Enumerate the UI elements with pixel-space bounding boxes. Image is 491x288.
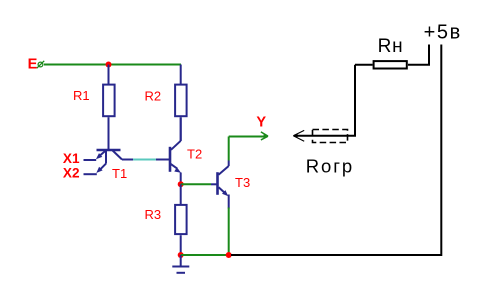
transistor T3: [218, 161, 229, 209]
wire R1 top lead: [108, 65, 110, 85]
resistor R3: [175, 205, 187, 234]
svg-text:Y: Y: [256, 114, 266, 130]
ground: [172, 255, 189, 273]
wire T3 collector up (green): [228, 137, 230, 161]
svg-text:T3: T3: [235, 175, 250, 190]
node junction dot T3 emitter bottom: [226, 252, 232, 258]
wire Y output with arrow (green): [229, 136, 266, 138]
resistor Rn: [374, 61, 407, 68]
wire down from Rn: [354, 65, 356, 136]
wire bottom rail right (black): [231, 254, 441, 256]
wire T3 base lead (navy): [211, 183, 217, 185]
wire R2 top lead: [180, 65, 182, 85]
resistor Rogr dashed box: [313, 130, 348, 143]
wire arrow shaft to output: [294, 135, 356, 137]
wire T2 emitter to T3 base (green): [181, 183, 211, 185]
svg-text:X2: X2: [63, 166, 80, 181]
wire bottom rail (green): [181, 254, 229, 256]
arrowhead open (black): [293, 130, 304, 141]
svg-text:R1: R1: [73, 88, 90, 103]
wire +5v vertical (black): [440, 45, 442, 257]
svg-text:R2: R2: [145, 89, 162, 104]
node junction dot at R1 top: [106, 62, 112, 68]
wire X2 input: [84, 173, 97, 175]
wire R3 top lead: [180, 184, 182, 204]
wire R3 bottom lead: [180, 235, 182, 255]
node junction dot ground left: [178, 252, 184, 258]
svg-text:+5в: +5в: [424, 22, 462, 44]
transistor T2: [170, 118, 181, 185]
svg-text:E: E: [28, 57, 38, 73]
wire selected segment (teal): [133, 159, 156, 161]
wire R2 bottom lead to T2 collector: [180, 117, 182, 141]
resistor R1: [103, 85, 115, 117]
wire Rn right lead: [408, 64, 430, 66]
svg-text:T1: T1: [112, 166, 127, 181]
wire X1 input: [84, 159, 97, 161]
resistor R2: [175, 85, 187, 117]
wire T1 collector to T2 base (navy): [122, 159, 133, 161]
node junction dot T2 emitter: [178, 181, 184, 187]
svg-text:Rогр: Rогр: [306, 156, 354, 177]
transistor T1 (multi-emitter): [97, 150, 123, 169]
svg-text:X1: X1: [63, 151, 80, 166]
wire R1 bottom lead to T1 base: [108, 117, 110, 150]
T2 emitter arrowhead: [174, 167, 181, 172]
svg-text:R3: R3: [145, 207, 162, 222]
T3 emitter arrowhead: [222, 190, 228, 196]
wire +5v tick to Rn: [428, 45, 430, 65]
terminal E: [37, 61, 44, 68]
svg-text:T2: T2: [187, 147, 202, 162]
wire Rn left lead: [355, 64, 373, 66]
wire T3 emitter down (green): [228, 208, 230, 256]
wire to T2 base (navy): [156, 159, 169, 161]
svg-text:Rн: Rн: [378, 36, 404, 57]
T1 emitter arrowheads: [96, 153, 102, 159]
wire E net (green top): [44, 64, 181, 66]
